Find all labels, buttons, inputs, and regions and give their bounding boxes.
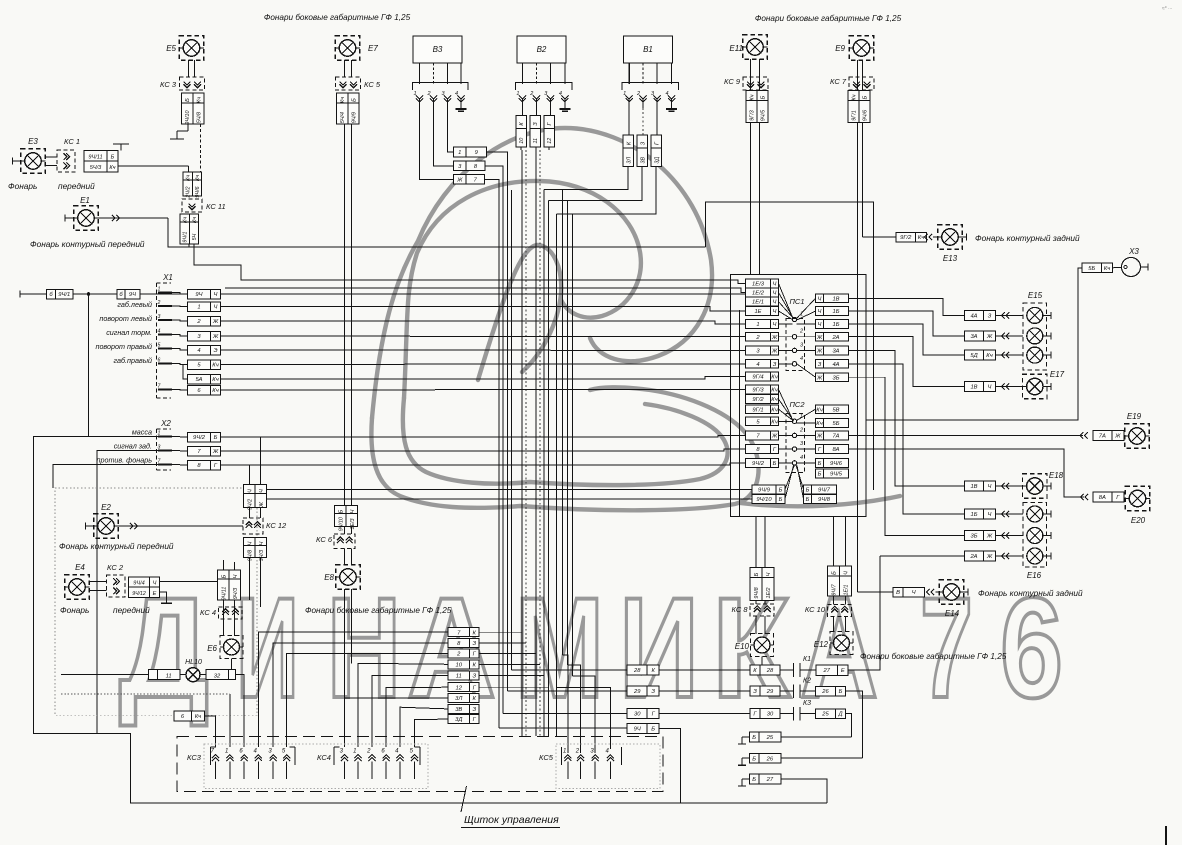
svg-text:9Ч/1: 9Ч/1 — [58, 292, 70, 298]
svg-text:5Д: 5Д — [970, 353, 977, 359]
frame tick bottom right — [1165, 826, 1167, 845]
svg-text:Б: Б — [752, 735, 756, 741]
svg-text:32: 32 — [214, 674, 221, 680]
svg-text:2: 2 — [529, 91, 533, 97]
svg-text:Ч: Ч — [247, 489, 253, 493]
svg-text:9Ч/5: 9Ч/5 — [761, 109, 767, 121]
svg-text:Е20: Е20 — [1131, 516, 1146, 525]
pin 3 X1 — [158, 319, 172, 321]
svg-text:Ч: Ч — [912, 590, 916, 596]
svg-text:9Ч/7: 9Ч/7 — [818, 487, 831, 493]
svg-text:И: И — [236, 569, 299, 728]
lamp E4 — [65, 575, 90, 600]
svg-text:Ч: Ч — [988, 512, 992, 518]
svg-text:Кч: Кч — [109, 165, 115, 171]
svg-text:9Г/1: 9Г/1 — [752, 407, 763, 413]
svg-text:3В: 3В — [455, 707, 462, 713]
wires PS box bottom to KC8 — [755, 517, 757, 568]
svg-text:9Ч/8: 9Ч/8 — [247, 550, 253, 561]
svg-text:Ч: Ч — [818, 309, 822, 315]
left pair boxes bottom — [752, 485, 776, 494]
block below KC12 — [244, 538, 256, 546]
lamp E13 rear clearance — [863, 236, 897, 238]
wire E20 row — [849, 449, 1085, 497]
svg-text:Е6: Е6 — [207, 644, 217, 653]
lamp E3 front — [21, 149, 46, 174]
wire bus X2 rows to PS2 — [221, 435, 746, 437]
svg-text:Е9: Е9 — [835, 44, 845, 53]
lamp E10 — [751, 634, 774, 657]
assembly box PS — [731, 275, 867, 517]
svg-text:27: 27 — [766, 777, 774, 783]
svg-text:10: 10 — [456, 662, 463, 668]
svg-text:3: 3 — [158, 445, 161, 451]
svg-text:Кч: Кч — [750, 94, 756, 100]
block KC7 wires — [848, 91, 859, 101]
svg-text:К: К — [473, 662, 477, 668]
svg-text:КС 6: КС 6 — [316, 535, 333, 544]
wire box Zh-7 — [454, 174, 467, 184]
right wire boxes PS2 — [816, 405, 824, 414]
terminal bar above KC1 block — [120, 144, 122, 151]
svg-text:Н: Н — [327, 569, 401, 728]
svg-text:Фонари боковые габаритные ГФ 1: Фонари боковые габаритные ГФ 1,25 — [755, 14, 902, 23]
svg-text:поворот правый: поворот правый — [95, 342, 152, 351]
svg-text:сигнал торм.: сигнал торм. — [106, 328, 152, 337]
svg-text:Ч: Ч — [844, 571, 850, 575]
wires KC4 to E6 — [223, 600, 225, 636]
wires column right edges to bundle — [479, 631, 522, 633]
dotted subpanel KC3 KC4 — [204, 744, 428, 789]
wires E11 down — [750, 59, 752, 90]
svg-text:З: З — [472, 641, 476, 647]
svg-text:передний: передний — [58, 181, 95, 191]
svg-text:Б: Б — [839, 689, 843, 695]
svg-text:Ч: Ч — [153, 581, 157, 587]
lamp E5 — [179, 36, 204, 61]
svg-text:передний: передний — [113, 605, 150, 615]
block KC5 wires — [337, 93, 348, 103]
svg-text:Б: Б — [752, 756, 756, 762]
wire 9Ch to bottom bus — [659, 728, 680, 803]
pin bracket B1 — [622, 83, 678, 91]
svg-text:Б: Б — [754, 572, 760, 576]
svg-text:Кч: Кч — [212, 377, 218, 383]
wire box 25-D — [816, 709, 836, 719]
svg-text:9Г/3: 9Г/3 — [750, 110, 756, 120]
svg-text:9Г/3: 9Г/3 — [752, 387, 764, 393]
svg-text:Ч: Ч — [773, 291, 777, 297]
wire elbow x873 down right side — [706, 202, 874, 490]
svg-text:поворот левый: поворот левый — [99, 314, 152, 323]
svg-text:ПС1: ПС1 — [789, 297, 804, 306]
wires E3 to KC1 — [45, 156, 57, 158]
wire massa left route — [34, 437, 827, 803]
svg-text:Е5: Е5 — [166, 44, 176, 53]
svg-text:З: З — [753, 689, 757, 695]
right wire boxes PS1 — [816, 294, 824, 303]
svg-text:1: 1 — [353, 749, 356, 755]
arrows to lamps right side — [996, 314, 1023, 316]
svg-text:Кч: Кч — [771, 419, 777, 425]
svg-text:М: М — [515, 569, 604, 728]
svg-text:Ч: Ч — [214, 305, 218, 311]
svg-text:9Ч/3: 9Ч/3 — [233, 588, 239, 599]
svg-text:Ж: Ж — [212, 319, 219, 325]
svg-text:29: 29 — [766, 689, 774, 695]
wire E14 left — [858, 591, 894, 593]
svg-text:1Б: 1Б — [833, 309, 840, 315]
svg-text:Ж: Ж — [259, 501, 265, 508]
wires bundle to bottom boxes — [512, 669, 628, 671]
wire X3 to PS box — [866, 268, 1082, 420]
svg-text:2: 2 — [157, 300, 161, 306]
pin 6 X1 — [158, 363, 172, 365]
connector KC 7 — [849, 77, 874, 90]
pin bracket B3 — [413, 83, 469, 91]
wires PS1 right rows to E15 group — [849, 298, 965, 315]
svg-text:Б: Б — [651, 726, 655, 732]
wires E11 column to PS box — [750, 123, 752, 275]
svg-text:Кч: Кч — [771, 387, 777, 393]
svg-text:4: 4 — [756, 362, 759, 368]
svg-text:Кч: Кч — [183, 217, 189, 223]
svg-text:Ж: Ж — [212, 334, 219, 340]
svg-text:3Б: 3Б — [833, 375, 840, 381]
switch PS2 blades — [779, 389, 793, 420]
svg-text:КС 3: КС 3 — [160, 80, 177, 89]
svg-text:1Е/2: 1Е/2 — [766, 587, 772, 598]
svg-text:9Г/2: 9Г/2 — [900, 235, 912, 241]
bottom pair boxes PS2 — [804, 485, 812, 494]
svg-text:2А: 2А — [969, 554, 977, 560]
wire E1 bus to PS1 top row — [194, 247, 746, 283]
svg-text:29: 29 — [633, 689, 641, 695]
connector KC 2 — [107, 575, 126, 597]
ground pin4 B1 — [671, 99, 673, 109]
wire box 1-9 — [454, 147, 467, 157]
svg-text:Фонари боковые габаритные ГФ 1: Фонари боковые габаритные ГФ 1,25 — [264, 13, 411, 22]
wire box 26-B — [816, 686, 836, 696]
svg-text:Кч: Кч — [816, 407, 822, 413]
svg-text:2: 2 — [799, 427, 803, 433]
watermark logo swirl — [371, 128, 900, 510]
svg-text:4А: 4А — [832, 362, 839, 368]
svg-text:Кч: Кч — [816, 421, 822, 427]
svg-text:В3: В3 — [433, 45, 443, 54]
wires E7 down — [344, 60, 346, 77]
svg-text:3Б: 3Б — [971, 534, 978, 540]
wire left to HL10 — [61, 674, 148, 676]
svg-text:1Е/2: 1Е/2 — [752, 291, 765, 297]
svg-text:X2: X2 — [160, 419, 171, 428]
wires rows to K boxes — [659, 669, 750, 671]
svg-text:Кч: Кч — [196, 97, 202, 103]
svg-text:1Е/3: 1Е/3 — [350, 518, 356, 529]
switch PS1 blades — [779, 283, 793, 318]
svg-text:Б: Б — [221, 574, 227, 578]
svg-text:4: 4 — [800, 356, 803, 362]
svg-text:Б: Б — [779, 487, 783, 493]
svg-text:Б: Б — [863, 95, 869, 99]
block above KC11 — [183, 172, 192, 180]
svg-text:5Б: 5Б — [1088, 266, 1095, 272]
wire box 5A link — [183, 365, 188, 380]
svg-text:5А: 5А — [195, 377, 202, 383]
svg-text:9Ч/6: 9Ч/6 — [863, 110, 869, 121]
wire KC5 pin4 feeder — [556, 688, 610, 749]
svg-text:Е11: Е11 — [729, 44, 743, 53]
svg-text:Ч: Ч — [350, 509, 356, 513]
svg-text:2А: 2А — [831, 335, 839, 341]
svg-text:Е13: Е13 — [943, 254, 958, 263]
wires above KC4 block — [223, 560, 225, 570]
svg-text:Кч: Кч — [212, 363, 218, 369]
svg-text:Э: Э — [213, 348, 217, 354]
lamp E11 — [743, 35, 768, 60]
wires KC10 block gap — [833, 596, 835, 605]
svg-text:25: 25 — [766, 735, 774, 741]
connector KC 3 — [180, 77, 205, 90]
wire boxes 28 29 30 9Ch left — [627, 665, 647, 675]
svg-text:Б: Б — [773, 461, 777, 467]
wires ground boxes right — [781, 736, 852, 738]
lamp E8 — [336, 565, 361, 590]
wire E1 elbow to KC11 bus — [168, 218, 194, 247]
wires K boxes right side — [849, 556, 881, 670]
lamp E1 front clearance — [74, 206, 99, 231]
svg-text:9Ч/2: 9Ч/2 — [247, 499, 253, 510]
svg-text:З: З — [818, 362, 822, 368]
svg-text:12: 12 — [456, 685, 463, 691]
block above KC6 — [335, 506, 347, 514]
svg-text:Ч: Ч — [988, 385, 992, 391]
wires E7 column down to KC6 — [344, 124, 346, 506]
svg-text:Кч: Кч — [852, 94, 858, 100]
svg-text:Е: Е — [841, 668, 845, 674]
svg-text:X3: X3 — [1128, 247, 1139, 256]
pin 3 X2 — [158, 450, 172, 452]
svg-text:Фонарь контурный передний: Фонарь контурный передний — [30, 239, 145, 249]
dotted wire to KC3 pin1 — [61, 693, 230, 695]
svg-text:К1: К1 — [803, 656, 811, 663]
svg-text:Е12: Е12 — [814, 640, 829, 649]
wire KC2 block top to KC4 column — [160, 581, 220, 583]
svg-text:Ч: Ч — [233, 574, 239, 578]
connector KC 10 — [828, 605, 852, 617]
svg-text:ПС2: ПС2 — [789, 400, 805, 409]
svg-text:1: 1 — [158, 287, 161, 293]
pin 2 X1 — [158, 305, 172, 307]
svg-text:КС 11: КС 11 — [206, 202, 226, 211]
svg-text:Кч: Кч — [771, 375, 777, 381]
svg-text:КС 10: КС 10 — [805, 605, 826, 614]
svg-text:КС3: КС3 — [187, 753, 202, 762]
lamp E14 rear clearance — [931, 589, 934, 595]
svg-text:Кч: Кч — [918, 235, 924, 241]
svg-text:Б: Б — [806, 497, 810, 503]
svg-text:12: 12 — [547, 138, 553, 144]
wire box 11 — [148, 670, 157, 680]
svg-text:Б: Б — [832, 571, 838, 575]
connector KC 12 — [243, 518, 263, 534]
svg-text:1: 1 — [158, 431, 161, 437]
svg-text:К: К — [651, 668, 655, 674]
svg-text:Ж: Ж — [212, 449, 219, 455]
svg-text:9Ч/10: 9Ч/10 — [338, 517, 344, 531]
svg-text:И: И — [619, 569, 699, 728]
wire 2A row to E16 group — [880, 555, 965, 557]
svg-text:Е10: Е10 — [735, 642, 750, 651]
svg-text:5Б: 5Б — [833, 421, 840, 427]
svg-text:9Ч/1: 9Ч/1 — [183, 231, 189, 242]
svg-text:1Е/1: 1Е/1 — [752, 300, 764, 306]
svg-text:Ж: Ж — [816, 335, 823, 341]
svg-text:30: 30 — [767, 712, 774, 718]
svg-text:8А: 8А — [832, 447, 839, 453]
svg-text:Е3: Е3 — [28, 137, 38, 146]
svg-text:КС 5: КС 5 — [364, 80, 381, 89]
dotted enclosure front lamps group — [55, 488, 257, 715]
lamp group E16 — [1023, 503, 1047, 568]
svg-text:Б: Б — [818, 471, 822, 477]
svg-text:Е16: Е16 — [1027, 571, 1042, 580]
lamp E2 — [94, 514, 119, 539]
svg-text:1Е/1: 1Е/1 — [844, 584, 850, 595]
svg-text:Кч: Кч — [1104, 266, 1110, 272]
svg-text:К: К — [473, 696, 477, 702]
svg-text:1В: 1В — [832, 296, 839, 302]
block KC1 wires — [84, 151, 107, 162]
connector KC 9 — [743, 77, 768, 90]
wire box 6-Kch — [174, 711, 192, 721]
svg-text:В: В — [896, 590, 900, 596]
pin 7 X1 — [158, 389, 172, 391]
wire protiv fonar left route — [53, 465, 158, 489]
wires B1 to pins — [628, 63, 630, 84]
svg-text:Кч: Кч — [192, 217, 198, 223]
svg-text:Б: Б — [338, 509, 344, 513]
svg-text:4: 4 — [197, 348, 200, 354]
svg-text:9Г/4: 9Г/4 — [752, 375, 763, 381]
svg-text:Б: Б — [185, 98, 191, 102]
svg-text:Ж: Ж — [771, 335, 778, 341]
svg-text:9Ч/8: 9Ч/8 — [818, 497, 831, 503]
wire dashed E5 column down — [200, 124, 202, 172]
wire long bus y247 to E13 — [194, 246, 706, 248]
svg-text:Ч: Ч — [259, 541, 265, 545]
svg-text:11: 11 — [533, 138, 539, 144]
wire bus X1 rows to PS1 — [221, 293, 746, 295]
svg-text:Д: Д — [837, 712, 842, 718]
wire boxes under B2 — [516, 116, 527, 129]
svg-text:КС 1: КС 1 — [64, 137, 80, 146]
svg-text:5Ч/8: 5Ч/8 — [196, 112, 202, 123]
svg-text:Кч: Кч — [212, 388, 218, 394]
svg-text:Б: Б — [761, 95, 767, 99]
svg-text:Е4: Е4 — [75, 563, 85, 572]
svg-text:26: 26 — [766, 756, 774, 762]
svg-text:Кч: Кч — [195, 714, 201, 720]
svg-text:Ж: Ж — [986, 534, 993, 540]
wire 6Kch to KC3 pin7 — [205, 716, 216, 747]
wire E10 down — [761, 657, 763, 666]
svg-text:З: З — [651, 689, 655, 695]
wires B1 pins to boxes — [628, 108, 630, 135]
wires PS box bottom to KC10 — [833, 517, 835, 567]
svg-text:Кч: Кч — [771, 407, 777, 413]
svg-text:Ч: Ч — [818, 322, 822, 328]
svg-text:масса: масса — [132, 428, 152, 437]
svg-text:3В: 3В — [640, 157, 646, 164]
svg-text:Ч: Ч — [773, 322, 777, 328]
svg-text:11: 11 — [166, 674, 172, 680]
wire boxes under B1 — [623, 135, 634, 148]
wires E8 down to KC4 pins — [344, 589, 346, 698]
connector KC 4 — [219, 607, 243, 619]
wire E6 down — [231, 659, 233, 670]
wires B1 boxes elbows to bundle — [544, 167, 628, 190]
svg-text:9Г/1: 9Г/1 — [852, 110, 858, 120]
wires E4 to KC2 — [89, 581, 106, 583]
wire KC2 block bottom to terminal — [160, 592, 167, 603]
unit B2 — [517, 36, 566, 63]
wires KC6 — [344, 527, 346, 535]
block above KC4 — [218, 570, 230, 579]
svg-text:Кч: Кч — [771, 397, 777, 403]
svg-text:9Ч/3: 9Ч/3 — [259, 550, 265, 561]
svg-text:3А: 3А — [832, 348, 839, 354]
svg-text:8А: 8А — [1099, 495, 1106, 501]
svg-text:4: 4 — [800, 455, 803, 461]
svg-text:25: 25 — [821, 712, 829, 718]
wires B2 to pins — [521, 63, 523, 84]
svg-text:5: 5 — [158, 343, 161, 349]
svg-text:Б: Б — [111, 155, 115, 161]
svg-text:9Ч: 9Ч — [634, 726, 641, 732]
svg-text:3Д: 3Д — [654, 157, 660, 164]
svg-text:Е18: Е18 — [1049, 471, 1064, 480]
svg-text:7А: 7А — [832, 433, 839, 439]
unit B1 — [624, 36, 673, 63]
watermark text DINAMIKA 76 — [119, 569, 1063, 728]
svg-text:2: 2 — [636, 91, 640, 97]
svg-text:10: 10 — [519, 138, 525, 144]
svg-text:против. фонарь: против. фонарь — [97, 456, 153, 465]
svg-text:Ж: Ж — [771, 433, 778, 439]
svg-text:3Л: 3Л — [455, 696, 462, 702]
wire boxes column right of KC4 — [448, 628, 470, 637]
wire KC11 block down to bus — [188, 244, 190, 247]
wire E19 long row — [849, 434, 1084, 436]
svg-text:сигнал зад.: сигнал зад. — [114, 442, 152, 451]
svg-text:9Ч/2: 9Ч/2 — [752, 461, 765, 467]
svg-text:Ж: Ж — [1114, 433, 1121, 439]
svg-text:2: 2 — [575, 749, 580, 755]
svg-text:2: 2 — [366, 749, 371, 755]
svg-text:Кч: Кч — [186, 175, 192, 181]
wires E9 column down — [857, 123, 859, 593]
svg-text:Ж: Ж — [986, 334, 993, 340]
lamp E7 — [335, 36, 360, 61]
ground pin4 B3 — [460, 99, 462, 109]
svg-text:КС 12: КС 12 — [266, 521, 287, 530]
wire X1 row1 drop — [88, 294, 90, 437]
svg-text:габ.правый: габ.правый — [114, 356, 153, 365]
pin bracket B2 — [515, 83, 572, 91]
svg-text:9Ч/6: 9Ч/6 — [195, 186, 201, 197]
connector KC 11 — [182, 199, 202, 212]
